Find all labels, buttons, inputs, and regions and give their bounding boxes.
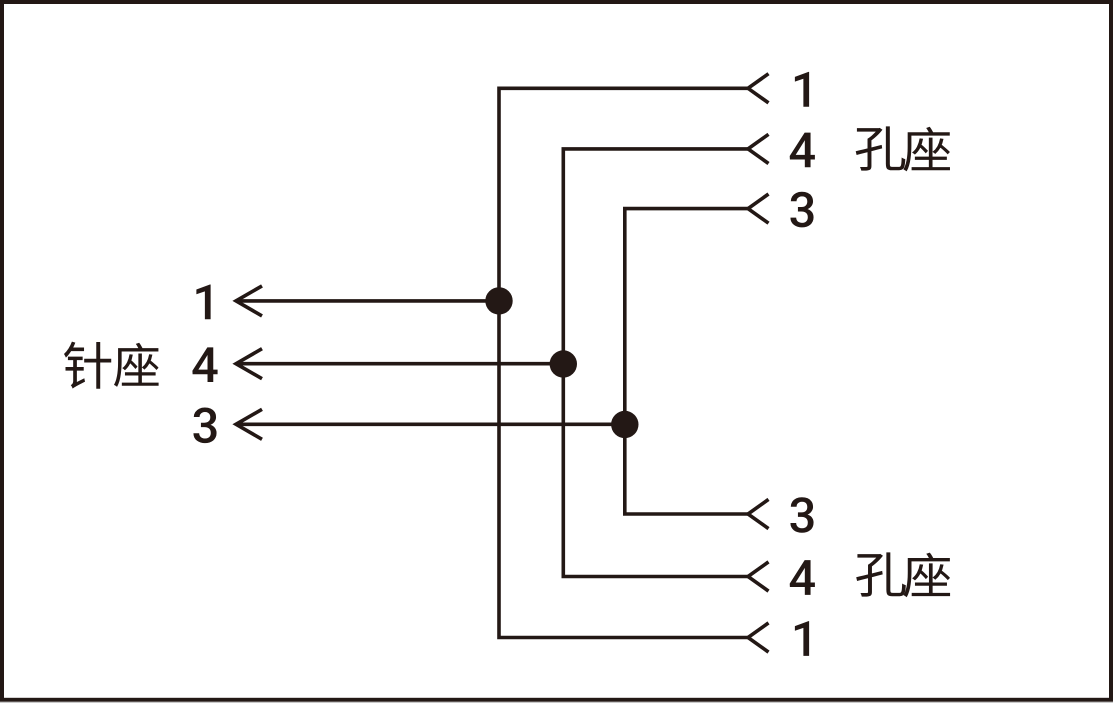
pin number 1 (top socket) — [795, 72, 809, 107]
junction node: net 1 tap to pin header — [485, 287, 512, 314]
pin number 3 (pin header) — [193, 408, 216, 444]
wire net 4: pin header pin 4 bus to both 孔座 sockets pin 4 — [563, 149, 748, 577]
arrowhead: pin header pin 4 — [236, 349, 262, 379]
label 孔座 char 孔 (top socket) — [856, 126, 906, 170]
label 孔座 char 孔 (bottom socket) — [856, 552, 906, 596]
label 针座 char 针 (pin header) — [64, 342, 111, 389]
junction node: net 3 tap to pin header — [611, 411, 638, 438]
wire net 1: pin header pin 1 bus to both 孔座 sockets pin 1 — [499, 88, 748, 637]
label 针座 char 座 (pin header) — [114, 343, 159, 387]
label 孔座 char 座 (top socket) — [903, 127, 950, 172]
pin number 3 (bottom socket) — [790, 497, 813, 533]
wire net 3: pin header pin 3 bus to both 孔座 sockets pin 3 — [625, 209, 748, 514]
arrowhead: top socket pin 4 — [748, 134, 769, 163]
pin number 1 (pin header) — [196, 285, 210, 320]
pin number 4 (pin header) — [192, 347, 217, 382]
wire: pin header pin 1 lead — [236, 299, 499, 303]
junction node: net 4 tap to pin header — [550, 350, 577, 377]
pin number 4 (top socket) — [790, 133, 815, 168]
pin number 1 (bottom socket) — [795, 621, 809, 656]
arrowhead: bottom socket pin 1 — [748, 623, 769, 652]
label 孔座 char 座 (bottom socket) — [903, 553, 950, 598]
arrowhead: pin header pin 3 — [236, 409, 262, 439]
arrowhead: pin header pin 1 — [236, 286, 262, 316]
pin number 3 (top socket) — [790, 192, 813, 228]
arrowhead: top socket pin 1 — [748, 74, 769, 103]
arrowhead: bottom socket pin 3 — [748, 499, 769, 528]
wire: pin header pin 3 lead — [236, 422, 625, 426]
arrowhead: top socket pin 3 — [748, 194, 769, 223]
pin number 4 (bottom socket) — [790, 560, 815, 595]
wire: pin header pin 4 lead — [236, 362, 563, 366]
arrowhead: bottom socket pin 4 — [748, 562, 769, 591]
